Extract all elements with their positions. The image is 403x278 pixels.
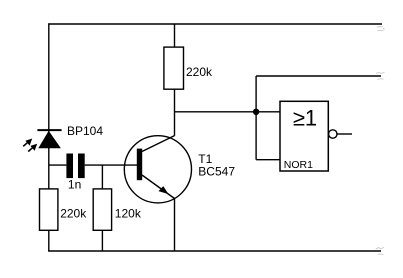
svg-text:220k: 220k bbox=[186, 65, 213, 79]
capacitor C1 plate left bbox=[66, 154, 73, 179]
transistor T1 body circle bbox=[124, 136, 191, 203]
svg-text:BP104: BP104 bbox=[67, 124, 103, 138]
wire bottom ground rail bbox=[48, 250, 381, 252]
resistor R3 120k bbox=[93, 189, 111, 230]
wire rail 2 (to right edge) bbox=[256, 75, 381, 77]
wire junction A vertical (up to rail 2, down to gate input 2) bbox=[255, 76, 257, 160]
svg-text:120k: 120k bbox=[115, 206, 142, 220]
wire R2 bottom to ground rail bbox=[48, 230, 50, 251]
wire gate input 2 horizontal bbox=[256, 159, 280, 161]
wire R3 bottom to ground rail bbox=[101, 230, 103, 251]
wire capacitor to base (left segment) bbox=[49, 164, 67, 166]
NOR gate U1 output inversion bubble bbox=[329, 130, 337, 138]
wire collector node to junction A bbox=[175, 111, 281, 113]
transistor T1 collector lead bbox=[142, 136, 175, 152]
wire end continuation mark ground rail bbox=[376, 247, 384, 255]
photodiode D1 triangle bbox=[38, 131, 61, 149]
wire left vertical (top rail to photodiode and R2) bbox=[48, 23, 50, 189]
wire end continuation mark rail 2 bbox=[376, 72, 385, 79]
svg-text:≥1: ≥1 bbox=[293, 106, 317, 131]
transistor T1 emitter lead bbox=[142, 175, 175, 199]
resistor R1 220k (top) bbox=[164, 47, 184, 89]
wire gate output bbox=[337, 133, 352, 135]
svg-text:NOR1: NOR1 bbox=[284, 159, 313, 171]
wire capacitor node down to R3 bbox=[101, 165, 103, 189]
resistor R2 220k (left) bbox=[40, 189, 58, 230]
node A junction dot bbox=[253, 109, 259, 115]
photodiode D1 cathode bar bbox=[37, 129, 61, 131]
wire R1 bottom to collector node bbox=[174, 89, 176, 136]
photodiode D1 light arrow upper bbox=[23, 142, 28, 146]
svg-text:220k: 220k bbox=[60, 206, 87, 220]
wire top supply rail bbox=[49, 23, 382, 25]
wire emitter to ground rail bbox=[174, 198, 176, 252]
photodiode D1 light arrow lower bbox=[28, 147, 33, 151]
wire vertical top rail to R1 bbox=[174, 24, 176, 48]
wire end continuation mark top rail bbox=[377, 27, 385, 31]
svg-text:BC547: BC547 bbox=[198, 164, 235, 178]
transistor T1 base bar bbox=[137, 149, 142, 181]
svg-text:1n: 1n bbox=[68, 177, 81, 191]
transistor T1 emitter arrowhead bbox=[159, 186, 169, 194]
capacitor C1 plate right bbox=[78, 154, 85, 179]
wire capacitor to base (right segment) bbox=[85, 164, 137, 166]
NOR gate U1 body bbox=[280, 101, 328, 171]
